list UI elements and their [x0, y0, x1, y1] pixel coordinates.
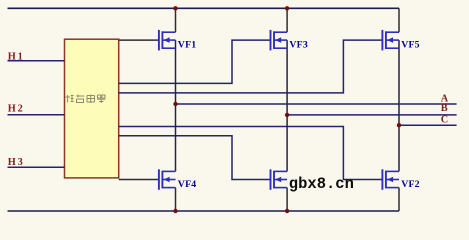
wire phase B vertical	[286, 40, 288, 171]
wire VF6 gate route	[119, 136, 271, 180]
wire phase C output	[399, 124, 457, 126]
wire VF1 gate	[119, 39, 159, 41]
svg-text:gbx8.cn: gbx8.cn	[289, 175, 354, 193]
junction top rail VF1	[173, 6, 177, 10]
wire phase C vertical	[398, 40, 400, 171]
wire VF5 drain	[398, 8, 400, 32]
wire VF3 gate route	[119, 40, 271, 83]
junction bottom rail VF4	[173, 209, 177, 213]
svg-text:H1: H1	[8, 52, 25, 63]
svg-text:C: C	[441, 114, 448, 125]
wire phase A output	[176, 103, 457, 105]
svg-text:VF4: VF4	[178, 179, 197, 190]
transistor VF6	[271, 169, 288, 190]
transistor VF3	[271, 30, 288, 51]
wire VF6 source	[286, 188, 288, 211]
junction phase C	[397, 123, 401, 127]
transistor VF4	[159, 169, 176, 190]
svg-text:VF5: VF5	[401, 40, 420, 51]
svg-text:VF1: VF1	[178, 40, 197, 51]
wire H1 input	[8, 60, 65, 62]
wire H2 input	[8, 114, 65, 116]
svg-text:B: B	[441, 103, 448, 114]
svg-text:VF3: VF3	[289, 40, 308, 51]
wire phase B output	[287, 114, 457, 116]
junction phase A	[173, 102, 177, 106]
wire VF3 drain	[286, 8, 288, 32]
junction phase B	[285, 113, 289, 117]
transistor VF1	[159, 30, 176, 51]
decoder block U1 译码电路	[65, 39, 119, 178]
svg-text:H2: H2	[8, 104, 25, 115]
transistor VF5	[382, 30, 399, 51]
wire VF4 source	[175, 188, 177, 211]
svg-text:H3: H3	[8, 157, 25, 168]
wire VF2 source	[398, 188, 400, 211]
wire phase A vertical	[175, 40, 177, 171]
svg-text:VF2: VF2	[401, 179, 420, 190]
wire VF4 gate	[119, 179, 159, 181]
wire bottom supply rail	[8, 210, 400, 212]
wire VF1 drain	[175, 8, 177, 32]
wire VF2 gate route	[119, 127, 383, 180]
wire VF5 gate route	[119, 40, 383, 93]
wire top supply rail	[8, 7, 400, 9]
junction top rail VF3	[285, 6, 289, 10]
transistor VF2	[382, 169, 399, 190]
junction bottom rail VF6	[285, 209, 289, 213]
wire H3 input	[8, 166, 65, 168]
